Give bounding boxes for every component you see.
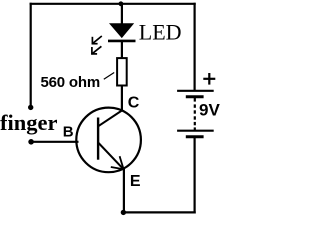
LED light arrow 1 [92,36,102,44]
svg-text:LED: LED [139,19,182,44]
wire right vertical (to battery +) [194,3,196,91]
wire battery negative lead [194,137,196,214]
resistor R1 560 ohm [117,58,127,85]
svg-text:9V: 9V [199,101,220,120]
svg-text:C: C [128,95,140,112]
wire LED cathode to resistor [121,41,123,58]
wire bottom rail [123,211,195,213]
node finger upper contact [28,105,33,110]
LED light arrow 2 [91,46,101,54]
transistor Q1 [76,108,141,173]
svg-text:finger: finger [0,110,57,135]
wire left vertical (to finger contact) [30,3,32,108]
svg-text:B: B [63,123,74,140]
battery BT1 9V [177,91,214,137]
wire collector lead [121,85,123,111]
junction bottom (emitter to bottom rail) [121,210,126,215]
wire base lead [31,141,78,143]
node finger lower contact [28,139,34,145]
junction top (LED branch) [119,1,124,6]
svg-text:560 ohm: 560 ohm [41,74,100,91]
callout line to resistor [104,73,114,80]
LED D1 [108,24,136,41]
wire emitter lead [123,169,125,213]
wire LED anode lead [121,4,123,25]
label + terminal [203,73,215,85]
svg-text:E: E [130,173,141,190]
wire top rail [30,3,196,5]
